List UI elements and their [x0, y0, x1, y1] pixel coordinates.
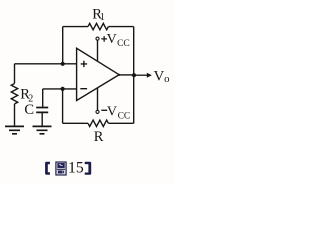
label -Vcc [101, 104, 130, 121]
wire -Vcc stem [97, 88, 99, 111]
-Vcc terminal circle [96, 110, 99, 113]
wire capacitor top lead [42, 89, 44, 107]
capacitor C plates [36, 108, 48, 113]
svg-text:o: o [164, 73, 169, 85]
svg-text:V: V [107, 104, 117, 119]
wire bottom feedback left horizontal [63, 122, 88, 124]
ground (left, below R2) [5, 126, 24, 133]
resistor R (bottom) [88, 120, 108, 126]
+Vcc terminal circle [96, 37, 99, 40]
wire bottom feedback right horizontal [108, 122, 133, 124]
wire bottom feedback left vertical up to inverting node [62, 89, 64, 123]
wire top feedback upper-left horizontal [63, 26, 88, 28]
wire right vertical from top corner down to output node [133, 27, 135, 76]
ground (below capacitor C) [33, 126, 52, 133]
wire +Vcc stem [97, 40, 99, 61]
label Vo [154, 68, 170, 84]
node output junction dot [132, 73, 136, 77]
label R1 [92, 6, 105, 23]
svg-text:CC: CC [118, 111, 131, 121]
wire noninverting input (left horizontal to op-amp plus input) [15, 63, 77, 65]
output arrow to Vo [136, 73, 152, 78]
svg-text:CC: CC [117, 39, 130, 49]
resistor R1 [88, 23, 108, 29]
op-amp minus sign [80, 88, 87, 90]
svg-text:1: 1 [100, 12, 105, 23]
op-amp U1 triangle [77, 48, 120, 100]
caption right bracket [85, 162, 92, 175]
svg-text:V: V [107, 32, 117, 47]
svg-text:15: 15 [68, 159, 84, 176]
label R2 [20, 87, 33, 105]
wire right vertical from output node down to bottom corner [133, 75, 135, 123]
node junction dot at plus input [61, 62, 65, 66]
wire op-amp output to node [119, 74, 135, 76]
svg-text:V: V [154, 68, 165, 84]
resistor R2 [11, 84, 17, 104]
wire top feedback upper-right horizontal [108, 26, 133, 28]
node junction dot at inverting input [61, 87, 65, 91]
wire top feedback left vertical [62, 27, 64, 64]
svg-text:R: R [94, 129, 104, 145]
caption left bracket [45, 162, 50, 175]
wire capacitor bottom lead to ground [41, 112, 43, 126]
caption character tu (figure) [56, 162, 66, 175]
label +Vcc [101, 32, 129, 49]
op-amp output apex joint [118, 74, 120, 76]
op-amp plus sign [81, 61, 87, 67]
wire left rail from plus-input corner down to R2 [14, 64, 16, 84]
wire inverting input horizontal [43, 88, 77, 90]
svg-text:C: C [24, 102, 34, 118]
wire R2 bottom lead to ground [14, 104, 16, 126]
